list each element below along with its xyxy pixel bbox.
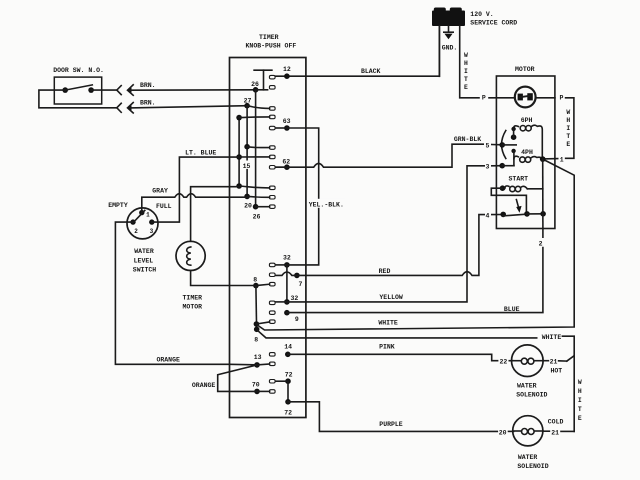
svg-text:I: I <box>464 68 468 75</box>
svg-text:MOTOR: MOTOR <box>515 66 535 73</box>
svg-text:LEVEL: LEVEL <box>134 257 154 264</box>
svg-text:13: 13 <box>254 354 262 361</box>
svg-text:W: W <box>578 379 582 386</box>
switch contact C <box>511 149 515 153</box>
svg-text:21: 21 <box>551 429 559 436</box>
svg-text:5: 5 <box>485 142 489 149</box>
wire GRAY (wls 1 to timer 20) <box>142 194 247 213</box>
motor thermal protector <box>515 87 536 108</box>
inductor main winding 4PH <box>514 156 543 162</box>
wire hot 21 <box>544 360 549 362</box>
svg-text:12: 12 <box>283 66 291 73</box>
svg-text:26: 26 <box>251 81 259 88</box>
inductor start winding <box>500 185 543 191</box>
svg-text:2: 2 <box>539 240 543 247</box>
wire BRN 1 (door switch to timer 26) <box>91 85 256 96</box>
svg-text:YELLOW: YELLOW <box>379 294 403 301</box>
svg-text:63: 63 <box>283 118 291 125</box>
door switch S1 <box>54 77 101 104</box>
svg-text:ORANGE: ORANGE <box>156 356 180 363</box>
svg-text:3: 3 <box>150 228 154 235</box>
wire WHITE neutral (timer 8 to motor 1) <box>258 159 575 330</box>
svg-text:T: T <box>578 406 582 413</box>
ground symbol <box>444 26 453 39</box>
timer knob actuator <box>254 69 272 71</box>
svg-text:YEL.-BLK.: YEL.-BLK. <box>309 201 344 208</box>
node A winding taps <box>511 127 515 131</box>
svg-text:32: 32 <box>283 255 291 262</box>
bus3 vertical <box>238 118 240 186</box>
wire YELLOW (timer 32 to motor 3) <box>287 166 484 302</box>
svg-text:21: 21 <box>550 359 558 366</box>
svg-text:1: 1 <box>560 156 564 163</box>
svg-text:BRN.: BRN. <box>140 82 156 89</box>
jumper 72-72 <box>287 381 289 402</box>
label YEL.-BLK. <box>308 199 346 209</box>
svg-text:8: 8 <box>253 277 257 284</box>
svg-text:26: 26 <box>253 213 261 220</box>
svg-text:9: 9 <box>295 316 299 323</box>
water solenoid HOT <box>512 345 544 377</box>
bus 27-20 vertical <box>246 106 248 197</box>
wire terminal 1 <box>543 158 558 160</box>
wire motor junction to terminal 2 <box>542 159 544 228</box>
timer motor TM <box>176 241 205 270</box>
blade 32-32 <box>286 265 288 302</box>
svg-text:ORANGE: ORANGE <box>192 382 216 389</box>
wire timer motor top (to bus3) <box>191 187 240 242</box>
label WHITE vertical (service cord) <box>464 52 468 91</box>
wls contact 1 <box>139 210 144 215</box>
blade 27 to finger <box>247 106 270 109</box>
node 8b <box>254 327 260 333</box>
svg-text:LT. BLUE: LT. BLUE <box>185 149 216 156</box>
svg-text:E: E <box>464 84 468 91</box>
svg-text:PURPLE: PURPLE <box>379 421 403 428</box>
door switch blade <box>65 85 92 90</box>
svg-text:4: 4 <box>485 213 489 220</box>
node 13 <box>254 362 260 368</box>
bus 8 vertical <box>255 286 258 330</box>
label WHITE vertical (motor) <box>566 109 570 148</box>
label 1 <box>559 154 565 163</box>
wire timer motor bottom (to timer 8) <box>191 271 256 286</box>
timer box <box>230 58 306 418</box>
svg-text:SOLENOID: SOLENOID <box>517 463 548 470</box>
node bus3 top <box>236 115 242 121</box>
svg-text:1: 1 <box>146 212 150 219</box>
wire P left into motor <box>489 97 515 99</box>
node bus2 blade dot <box>244 144 250 150</box>
wls blade <box>134 210 145 222</box>
svg-text:4PH: 4PH <box>521 149 533 156</box>
wire PURPLE (timer 72 to solenoid 20) <box>288 402 497 432</box>
node 26 lower <box>253 204 259 210</box>
node bus3 bottom <box>236 183 242 189</box>
svg-text:BRN.: BRN. <box>140 99 156 106</box>
centrifugal switch arc <box>502 131 506 159</box>
svg-text:MOTOR: MOTOR <box>183 304 203 311</box>
terminal 9 <box>284 310 290 316</box>
wire ORANGE (wls 2 to timer 13) <box>115 222 257 365</box>
wire white riser (hot 21 to cold 21) <box>573 356 575 432</box>
svg-text:KNOB-PUSH OFF: KNOB-PUSH OFF <box>246 42 297 49</box>
svg-text:32: 32 <box>290 295 298 302</box>
svg-text:W: W <box>464 52 468 59</box>
terminal 3 node <box>499 163 505 169</box>
wire GRN-BLK (timer 62 to motor 5) <box>276 144 483 167</box>
svg-text:14: 14 <box>284 344 292 351</box>
white jumper P to 1 <box>566 98 574 159</box>
svg-text:GRAY: GRAY <box>152 187 168 194</box>
service cord plug <box>432 8 465 27</box>
wls contact 2 <box>130 219 135 224</box>
svg-text:RED: RED <box>379 268 391 275</box>
svg-text:SOLENOID: SOLENOID <box>516 391 547 398</box>
svg-text:P: P <box>482 95 486 102</box>
svg-text:62: 62 <box>282 158 290 165</box>
node E motor junction <box>540 156 546 162</box>
svg-text:SWITCH: SWITCH <box>133 267 157 274</box>
svg-text:72: 72 <box>284 409 292 416</box>
terminal 7 <box>294 273 300 279</box>
svg-text:72: 72 <box>285 371 293 378</box>
svg-text:20: 20 <box>244 203 252 210</box>
svg-text:3: 3 <box>485 164 489 171</box>
node 15 <box>236 154 242 160</box>
wire PINK (timer 14 to solenoid 22) <box>288 354 498 360</box>
svg-text:120 V.: 120 V. <box>470 11 493 18</box>
svg-text:6PH: 6PH <box>521 117 533 124</box>
wire BLACK (timer 12 to service cord) <box>276 26 440 76</box>
svg-text:EMPTY: EMPTY <box>108 202 128 209</box>
svg-text:8: 8 <box>254 336 258 343</box>
wire service cord hot lead <box>438 26 440 76</box>
wire RED (timer 7 to motor 4) <box>297 215 484 276</box>
wire BRN 2 (door switch to timer 27) <box>39 90 247 113</box>
svg-text:SERVICE CORD: SERVICE CORD <box>470 20 517 27</box>
bus 26-26 vertical <box>255 90 257 207</box>
water level switch <box>127 208 158 239</box>
wire cold 21 <box>543 430 549 432</box>
svg-text:WATER: WATER <box>134 248 154 255</box>
start switch contacts <box>500 212 506 218</box>
svg-text:PINK: PINK <box>379 344 395 351</box>
svg-text:WATER: WATER <box>517 382 537 389</box>
svg-text:DOOR SW. N.O.: DOOR SW. N.O. <box>53 67 104 74</box>
node 8a <box>254 321 260 327</box>
svg-text:27: 27 <box>244 97 252 104</box>
svg-text:70: 70 <box>252 382 260 389</box>
svg-text:W: W <box>566 109 570 116</box>
timer contact fingers <box>269 75 275 393</box>
wire terminal 2 upper <box>542 229 544 238</box>
svg-text:H: H <box>464 60 468 67</box>
water solenoid COLD <box>513 416 543 446</box>
svg-text:I: I <box>566 125 570 132</box>
svg-text:20: 20 <box>499 429 507 436</box>
wire start coil jog <box>491 188 526 214</box>
node 8 (timer motor feed) <box>253 283 259 289</box>
svg-text:WHITE: WHITE <box>542 334 562 341</box>
svg-text:TIMER: TIMER <box>183 294 203 301</box>
terminal 5 blade <box>499 142 505 148</box>
svg-text:15: 15 <box>243 163 251 170</box>
wls contact 3 <box>149 219 154 224</box>
svg-text:H: H <box>566 117 570 124</box>
svg-text:WHITE: WHITE <box>378 320 398 327</box>
svg-text:H: H <box>578 388 582 395</box>
svg-text:BLACK: BLACK <box>361 68 381 75</box>
label WHITE vertical (solenoids) <box>578 379 582 422</box>
svg-text:GRN-BLK: GRN-BLK <box>454 136 481 143</box>
timer motor coil <box>187 247 191 265</box>
svg-text:GND.: GND. <box>442 45 458 52</box>
svg-text:22: 22 <box>499 359 507 366</box>
wire service cord neutral (white) <box>460 26 479 98</box>
svg-text:T: T <box>566 133 570 140</box>
svg-text:P: P <box>559 95 563 102</box>
wire protector to box right <box>536 97 555 99</box>
wire BLUE (motor 2 to timer 9) <box>287 248 543 313</box>
svg-text:FULL: FULL <box>156 203 172 210</box>
wire ORANGE jumper (13 to 70) <box>218 365 257 392</box>
wire LT. BLUE (wls 3 to timer 15) <box>152 157 239 222</box>
svg-text:COLD: COLD <box>548 419 564 426</box>
start switch arrow <box>516 200 518 209</box>
door switch contacts <box>62 87 68 93</box>
svg-text:2: 2 <box>134 228 138 235</box>
svg-text:START: START <box>509 176 529 183</box>
svg-text:WATER: WATER <box>518 454 538 461</box>
svg-text:BLUE: BLUE <box>504 306 520 313</box>
node 70 <box>254 389 260 395</box>
wire YEL.-BLK. (timer 63 to 32) <box>287 128 319 265</box>
svg-text:I: I <box>578 397 582 404</box>
svg-text:HOT: HOT <box>550 368 562 375</box>
terminal 72 lower <box>285 399 291 405</box>
wire WHITE (timer 8 to solenoids) <box>258 331 537 338</box>
svg-text:E: E <box>578 415 582 422</box>
label 15 <box>242 161 252 171</box>
svg-text:E: E <box>566 141 570 148</box>
node 26 (timer) <box>253 87 259 93</box>
svg-text:7: 7 <box>299 281 303 288</box>
motor U1 box <box>496 76 555 229</box>
inductor main winding 6PH <box>514 125 543 157</box>
node 27 <box>244 103 250 109</box>
node 20 <box>244 194 250 200</box>
svg-text:T: T <box>464 76 468 83</box>
svg-text:TIMER: TIMER <box>259 34 279 41</box>
